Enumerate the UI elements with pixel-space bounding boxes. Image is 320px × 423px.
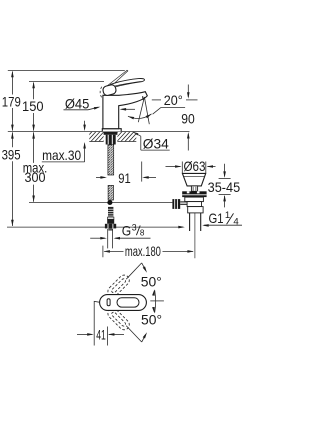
svg-text:G: G [122,223,131,238]
hose end with G3/8 union nut [105,207,116,231]
label 50 deg lower [141,313,162,328]
svg-text:395: 395 [2,148,21,163]
pop-up waste plug cap [182,173,205,186]
faucet plan view (body with loop lever) [100,295,147,311]
dimension max.180 [103,244,194,259]
pivot rod housing and knurled nut [172,199,201,209]
dimension max.30 (countertop thickness) [42,121,86,163]
drain tailpipe with centerline [190,213,201,258]
svg-text:max.180: max.180 [125,244,161,259]
label diameter 34 (required hole) [133,132,170,152]
dimension max.300 (flexible hose length) [23,132,48,202]
junction node (hose crossing reference line) [107,200,112,205]
dimension 20 deg (spray angle) [120,93,198,124]
flange lower ring [185,197,204,202]
svg-text:8: 8 [140,228,145,237]
svg-text:Ø45: Ø45 [65,96,90,111]
swing arc 50-50 with tick [150,289,164,313]
lever swung position +50 deg (dashed, plan view) [106,273,132,299]
svg-text:41: 41 [96,327,106,342]
lever swing arc (dashed) [100,87,102,98]
label diameter 45 (base escutcheon) with leader [64,96,101,111]
dimension 150 (height to lever) [22,82,44,131]
svg-text:150: 150 [22,99,44,114]
dimension 90 (spout height) [181,85,195,151]
svg-text:35-45: 35-45 [208,180,241,195]
plug stem [191,186,197,191]
label 50 deg upper [141,275,162,290]
node hose-end reference line / pop-up rod [29,202,172,204]
upper 50 deg leader [126,263,147,279]
svg-text:179: 179 [2,94,21,109]
lever swung position -50 deg (dashed, plan view) [106,306,132,332]
svg-text:50°: 50° [141,275,162,290]
dimension 179 (height to raised lever) [2,71,21,131]
svg-text:Ø63: Ø63 [184,159,206,174]
waste flange [182,191,206,197]
node bottom reference line (395) [7,226,185,229]
label G 3/8 thread [90,222,150,248]
svg-text:G1: G1 [209,211,224,226]
countertop slab cross-section with hatching [78,131,147,143]
dimension 35-45 (basin clamping range) [208,164,241,208]
svg-text:300: 300 [25,170,46,185]
svg-text:Ø34: Ø34 [143,137,169,152]
dimension 41 [77,301,124,345]
node lever-height reference line (150) [29,81,104,83]
flexible connection hose [108,185,113,200]
lever shown raised (phantom lines) [106,70,128,88]
svg-text:4: 4 [233,217,239,228]
svg-text:50°: 50° [141,313,162,328]
faucet body and spout (side view) [102,92,147,132]
lever handle (side view) [102,79,144,97]
dimension diameter 63 (flange) [166,159,216,174]
svg-text:20°: 20° [164,93,183,108]
node countertop surface line [8,131,190,133]
label G1 1/4 thread [202,210,242,228]
svg-text:max.30: max.30 [42,148,81,163]
dimension 91 (spout projection) [96,162,156,187]
lower 50 deg leader [126,326,147,342]
svg-text:3: 3 [132,222,137,232]
dimension 395 (overall height) [2,132,21,226]
svg-text:91: 91 [118,171,131,186]
drain locknut [188,207,203,213]
node top-height reference line (lever raised, 179) [8,70,125,72]
threaded mounting shank [108,145,114,175]
svg-text:90: 90 [181,111,195,126]
mounting washer and fastening nut [104,132,118,145]
